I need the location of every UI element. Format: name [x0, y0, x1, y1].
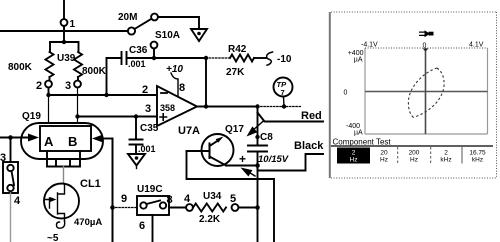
pin 4 circle [186, 204, 193, 211]
wire feedback vertical [205, 58, 207, 107]
capacitor C8 [248, 146, 267, 152]
svg-text:0: 0 [344, 90, 348, 97]
U19C contact left [140, 202, 146, 208]
resistor R42 [230, 55, 254, 62]
wire TP7 lead [283, 97, 286, 107]
svg-text:U39: U39 [57, 53, 76, 64]
arrow gate A [28, 134, 39, 142]
svg-text:470µA: 470µA [74, 217, 102, 228]
Q19 neck [47, 151, 80, 167]
svg-text:U7A: U7A [178, 125, 200, 137]
switch U19C box [137, 196, 169, 215]
svg-text:C35: C35 [140, 123, 159, 134]
svg-text:A: A [44, 134, 54, 149]
node S10A tap [152, 56, 156, 60]
test point TP7 circle [274, 78, 293, 97]
U19C blade [147, 201, 161, 205]
wire pin3 down [77, 88, 79, 125]
svg-text:+10: +10 [166, 64, 183, 75]
switch S10A right contact [151, 14, 158, 21]
svg-text:3: 3 [145, 103, 151, 115]
transistor Q17 circle [202, 134, 234, 166]
svg-text:C8: C8 [260, 132, 273, 143]
svg-text:16.75: 16.75 [469, 150, 486, 157]
svg-text:~5: ~5 [47, 233, 59, 242]
svg-text:.001: .001 [128, 59, 146, 69]
wire C8 bottom [257, 152, 259, 166]
wire gate A into Q19 [48, 95, 50, 124]
wire resistor bus [50, 42, 79, 52]
svg-text:10/15V: 10/15V [258, 154, 289, 165]
button bar top line [331, 145, 493, 147]
svg-text:kHz: kHz [440, 157, 451, 164]
graticule bottom border [365, 133, 488, 135]
capacitor C36 [122, 52, 127, 64]
wire node down to bottom [257, 166, 259, 242]
CL1 gate arrow [50, 197, 57, 202]
node feedback at output [204, 104, 208, 108]
Q17 collector diagonal with arrow [210, 141, 219, 147]
wire tap up [153, 49, 155, 59]
resistor U39B 800K right [74, 52, 82, 81]
pin 3 circle [74, 81, 81, 88]
wire C35 down [135, 117, 137, 140]
pin 1 circle [61, 19, 68, 26]
svg-text:Red: Red [301, 110, 322, 122]
resistor U39A 800K left [46, 52, 54, 81]
arrow gate B [92, 135, 103, 143]
opamp minus sign [161, 92, 167, 94]
current limiter CL1 circle [44, 184, 79, 219]
switch box left [10, 138, 12, 163]
CL1 bottom hook [57, 221, 65, 228]
node above C8 [255, 135, 259, 139]
svg-text:+: + [239, 152, 246, 166]
switch S10A left contact [128, 27, 135, 34]
dual fet Q19 package [21, 123, 103, 159]
svg-text:27K: 27K [226, 67, 245, 78]
op-amp U7A triangle [157, 86, 197, 126]
svg-text:20M: 20M [118, 12, 137, 23]
svg-text:5: 5 [230, 193, 236, 205]
svg-text:7: 7 [281, 88, 285, 97]
pin 5 circle [232, 204, 239, 211]
graticule top border dotted [365, 47, 488, 49]
wire to C36 [107, 57, 122, 59]
ground chassis triangle top [191, 29, 207, 41]
svg-text:-10: -10 [277, 54, 292, 65]
svg-text:4.1V: 4.1V [469, 42, 484, 49]
svg-text:µA: µA [354, 130, 363, 137]
wire pin3 to opamp non-inverting input [78, 116, 158, 118]
svg-text:20: 20 [380, 150, 388, 157]
wire into gate A [0, 137, 29, 139]
svg-text:800K: 800K [82, 66, 107, 77]
window border top dotted [331, 11, 497, 13]
node C8 bottom junction [255, 163, 260, 168]
node feedback top [204, 56, 208, 60]
wire main top horizontal [0, 30, 128, 32]
node pin3 junction [75, 114, 79, 118]
wire into gate B [104, 138, 113, 140]
switch contact circle lower [151, 42, 158, 49]
svg-text:2: 2 [444, 150, 448, 157]
ground tick [136, 166, 138, 169]
svg-text:B: B [68, 134, 77, 149]
off-page squiggle [267, 52, 273, 65]
svg-text:-4.1V: -4.1V [361, 42, 378, 49]
supply hook wire [171, 73, 178, 96]
node junction at pin2 wire [104, 93, 108, 97]
switch contact bottom [7, 185, 13, 191]
wire below switch box [10, 193, 12, 242]
button separator 2 [430, 147, 432, 164]
wire black lead [258, 154, 324, 171]
svg-text:1: 1 [70, 19, 76, 30]
switch box [3, 162, 18, 193]
wire switch to ground [158, 17, 199, 29]
svg-text:2: 2 [36, 80, 42, 92]
svg-text:CL1: CL1 [80, 178, 101, 190]
CL1 gate [45, 198, 50, 208]
svg-text:Q17: Q17 [225, 124, 244, 135]
svg-text:kHz: kHz [472, 157, 483, 164]
graticule right border [487, 48, 489, 134]
svg-text:Component Test: Component Test [333, 138, 392, 147]
capacitor C35 tap node [134, 114, 138, 118]
wire pin2 to opamp inverting input [49, 94, 158, 96]
wire base loop [187, 151, 275, 242]
wire R42 to -10 [254, 57, 266, 59]
wire pin 6 down [152, 215, 154, 242]
CL1 fet channel [58, 184, 65, 221]
oscilloscope component test window [329, 11, 497, 178]
pin 1 stub wire [63, 0, 65, 19]
wire emitter to node [226, 165, 258, 167]
Q19 inner rect [40, 126, 91, 151]
wire dotted to U19C pin 9 [113, 207, 138, 209]
svg-text:Hz: Hz [350, 157, 358, 164]
axis vertical [425, 48, 427, 134]
wire pin1 down to resistor bus [63, 26, 65, 42]
signal arrow to Q17 collector [252, 121, 264, 132]
node C36 branch corner [106, 58, 108, 95]
svg-text:3: 3 [65, 80, 71, 92]
Q17 emitter diagonal [210, 157, 227, 166]
svg-text:µA: µA [354, 57, 363, 64]
ground dot [197, 32, 201, 36]
window border bottom dotted [331, 177, 497, 179]
svg-text:Q19: Q19 [22, 111, 41, 122]
svg-text:358: 358 [160, 103, 175, 113]
svg-text:2.2K: 2.2K [199, 214, 221, 225]
capacitor C35 [130, 140, 143, 145]
wire B bus down [112, 139, 114, 242]
wire C35 to ground [135, 145, 137, 155]
window border left [329, 12, 331, 178]
button 2Hz selected [337, 148, 370, 164]
U19C contact right [160, 202, 166, 208]
ground chassis triangle C35 [128, 154, 145, 166]
node pin2 junction [46, 93, 50, 97]
wire neck to CL1 [63, 167, 65, 184]
pin 2 circle [45, 81, 52, 88]
node U34 tap [255, 205, 260, 210]
node TP7 tap [282, 104, 286, 108]
svg-text:2: 2 [142, 84, 148, 96]
svg-text:U34: U34 [203, 191, 222, 202]
wire output dotted segment [258, 106, 303, 108]
wire opamp output [197, 106, 258, 108]
svg-text:8: 8 [179, 82, 185, 94]
button separator 1 [397, 147, 399, 164]
wire U19C to pin4 [169, 207, 186, 209]
axis horizontal [365, 91, 488, 93]
svg-text:S10A: S10A [155, 30, 180, 41]
svg-text:C36: C36 [129, 45, 148, 56]
node U19C tap [110, 205, 115, 210]
wire pin2 down [48, 88, 50, 96]
Q17 base bar [209, 144, 211, 159]
wire C36 to feedback node [127, 57, 207, 59]
node output mid [255, 104, 259, 108]
signal arrow to Q17 emitter [247, 171, 255, 176]
wire output down to C8 [257, 107, 259, 146]
node resistor bus junction [62, 40, 66, 44]
graticule left border [364, 48, 366, 134]
button separator 3 [461, 147, 463, 164]
Q17 base wire [187, 150, 210, 152]
svg-text:.001: .001 [138, 144, 156, 154]
wire pin5 to node [239, 207, 258, 209]
svg-text:R42: R42 [228, 44, 247, 55]
svg-text:9: 9 [121, 193, 127, 205]
wire red jog [258, 113, 324, 122]
switch blade [12, 171, 15, 185]
svg-text:8: 8 [167, 194, 173, 206]
window border right dotted [496, 12, 498, 178]
svg-text:0: 0 [423, 43, 427, 50]
node left junction [8, 135, 13, 140]
trigger marker arrow [419, 32, 425, 35]
svg-text:4: 4 [14, 195, 21, 207]
switch contact top [7, 165, 13, 171]
svg-text:2: 2 [352, 150, 356, 157]
svg-text:6: 6 [139, 220, 145, 232]
opamp plus sign [160, 114, 167, 120]
switch S10A blade [135, 19, 152, 29]
svg-text:Black: Black [294, 140, 324, 152]
svg-text:4: 4 [184, 193, 191, 205]
svg-text:200: 200 [409, 150, 420, 157]
svg-text:U19C: U19C [137, 184, 163, 195]
wire dotted to R42 [206, 57, 230, 59]
lissajous ellipse [408, 68, 437, 118]
svg-text:Hz: Hz [410, 157, 418, 164]
ground dot C35 [135, 156, 139, 160]
resistor U34 2.2K [193, 204, 226, 212]
svg-text:Hz: Hz [380, 157, 388, 164]
svg-text:800K: 800K [8, 62, 33, 73]
